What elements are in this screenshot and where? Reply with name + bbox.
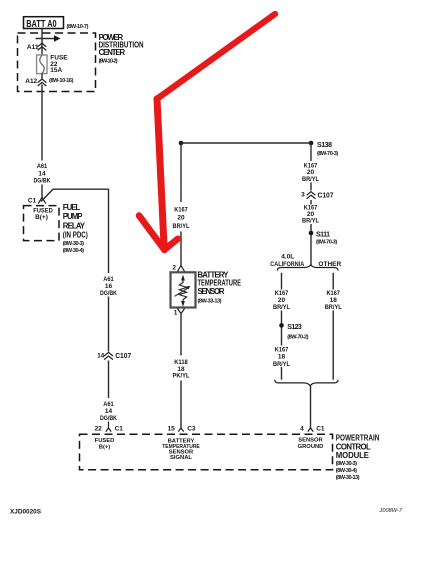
svg-text:K167: K167 bbox=[275, 347, 289, 354]
svg-text:B(+): B(+) bbox=[99, 445, 111, 451]
svg-text:C107: C107 bbox=[115, 353, 131, 360]
svg-text:K167: K167 bbox=[174, 207, 188, 214]
svg-text:BR/YL: BR/YL bbox=[302, 218, 319, 225]
svg-text:20: 20 bbox=[278, 297, 286, 304]
svg-text:SENSOR: SENSOR bbox=[198, 287, 225, 296]
svg-text:K167: K167 bbox=[326, 290, 340, 297]
svg-text:(8W-30-4): (8W-30-4) bbox=[336, 468, 357, 474]
svg-text:(8W-30-3): (8W-30-3) bbox=[63, 241, 84, 247]
svg-text:(IN PDC): (IN PDC) bbox=[63, 231, 88, 240]
svg-text:C107: C107 bbox=[318, 192, 334, 199]
svg-text:(8W-30-4): (8W-30-4) bbox=[63, 248, 84, 254]
svg-text:20: 20 bbox=[177, 215, 185, 222]
svg-text:CONTROL: CONTROL bbox=[336, 442, 371, 451]
svg-text:(8W-70-2): (8W-70-2) bbox=[287, 335, 308, 341]
svg-text:22: 22 bbox=[95, 426, 103, 433]
svg-text:BR/YL: BR/YL bbox=[273, 361, 290, 368]
svg-text:(8W-30-13): (8W-30-13) bbox=[336, 475, 360, 481]
svg-text:(8W-10-16): (8W-10-16) bbox=[49, 78, 74, 84]
svg-text:C1: C1 bbox=[28, 197, 37, 204]
svg-text:A11: A11 bbox=[27, 44, 39, 51]
svg-text:GROUND: GROUND bbox=[298, 444, 324, 450]
svg-text:BR/YL: BR/YL bbox=[302, 176, 319, 183]
svg-text:BR/YL: BR/YL bbox=[273, 304, 290, 311]
svg-text:BR/YL: BR/YL bbox=[325, 304, 342, 311]
svg-text:S138: S138 bbox=[317, 142, 332, 149]
svg-text:14: 14 bbox=[97, 353, 105, 360]
svg-text:(8W-10-7): (8W-10-7) bbox=[67, 24, 89, 30]
svg-text:20: 20 bbox=[307, 169, 315, 176]
svg-text:FUEL: FUEL bbox=[63, 203, 81, 212]
svg-text:(8W-33-13): (8W-33-13) bbox=[198, 298, 222, 304]
svg-text:A61: A61 bbox=[103, 401, 114, 408]
svg-text:DG/BK: DG/BK bbox=[100, 290, 117, 297]
svg-text:A12: A12 bbox=[25, 78, 37, 85]
svg-text:A61: A61 bbox=[37, 163, 48, 170]
svg-text:C1: C1 bbox=[316, 425, 325, 432]
svg-text:2: 2 bbox=[172, 265, 176, 272]
svg-text:3: 3 bbox=[301, 192, 305, 199]
svg-text:18: 18 bbox=[330, 297, 338, 304]
svg-text:PK/YL: PK/YL bbox=[173, 373, 190, 380]
svg-text:15: 15 bbox=[168, 425, 176, 432]
svg-text:B(+): B(+) bbox=[35, 214, 48, 221]
svg-text:PUMP: PUMP bbox=[63, 212, 83, 221]
svg-text:J008W-7: J008W-7 bbox=[379, 508, 403, 514]
svg-text:S111: S111 bbox=[316, 232, 330, 239]
svg-text:1: 1 bbox=[174, 309, 178, 316]
svg-text:S123: S123 bbox=[287, 324, 302, 331]
svg-text:BR/YL: BR/YL bbox=[173, 223, 190, 230]
svg-text:DG/BK: DG/BK bbox=[100, 415, 117, 422]
svg-text:K167: K167 bbox=[275, 290, 289, 297]
svg-text:CENTER: CENTER bbox=[99, 48, 126, 57]
svg-text:K118: K118 bbox=[174, 359, 188, 366]
svg-text:POWERTRAIN: POWERTRAIN bbox=[336, 433, 380, 442]
svg-text:4: 4 bbox=[300, 425, 304, 432]
svg-text:18: 18 bbox=[278, 354, 286, 361]
svg-text:DG/BK: DG/BK bbox=[34, 177, 51, 184]
svg-text:(8W-70-3): (8W-70-3) bbox=[316, 240, 337, 246]
svg-text:MODULE: MODULE bbox=[336, 451, 369, 460]
svg-text:C1: C1 bbox=[115, 426, 124, 433]
svg-text:RELAY: RELAY bbox=[63, 221, 86, 230]
svg-text:(8W-30-3): (8W-30-3) bbox=[336, 461, 357, 467]
svg-text:(8W-10-2): (8W-10-2) bbox=[99, 58, 118, 64]
svg-text:SIGNAL: SIGNAL bbox=[170, 455, 192, 461]
svg-text:C3: C3 bbox=[187, 425, 196, 432]
svg-text:XJD0020S: XJD0020S bbox=[10, 510, 41, 516]
svg-text:FUSED: FUSED bbox=[95, 438, 115, 444]
svg-text:4.0L: 4.0L bbox=[281, 254, 294, 261]
svg-text:15A: 15A bbox=[50, 67, 62, 74]
svg-text:SENSOR: SENSOR bbox=[298, 438, 323, 444]
svg-text:(8W-70-3): (8W-70-3) bbox=[317, 151, 338, 157]
